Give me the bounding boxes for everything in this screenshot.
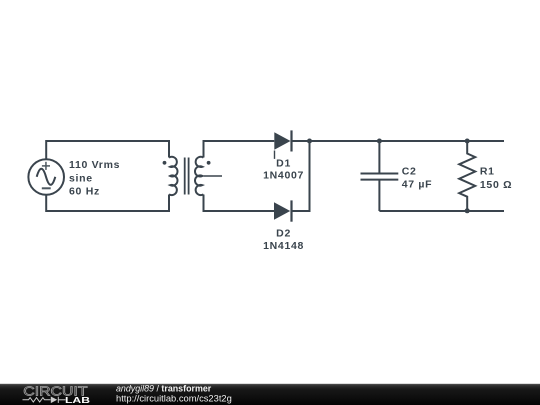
- svg-text:D1: D1: [276, 157, 291, 169]
- svg-text:andygil89 / transformer: andygil89 / transformer: [116, 384, 212, 394]
- svg-text:150 Ω: 150 Ω: [480, 179, 512, 191]
- wire: secondary top to D1: [204, 141, 275, 158]
- node at R1 top: [465, 139, 470, 144]
- diode D2: [274, 200, 292, 221]
- transformer center tap stub: [204, 175, 223, 177]
- D2 labels: [263, 227, 304, 251]
- wire: primary loop top: [46, 141, 169, 159]
- wire: primary loop bottom: [46, 195, 169, 212]
- voltage source plus sign: [42, 162, 50, 170]
- R1 labels: [480, 165, 512, 191]
- D1 labels: [263, 157, 304, 181]
- svg-text:1N4148: 1N4148: [263, 240, 304, 252]
- node at C2 top: [377, 139, 382, 144]
- resistor R1: [459, 141, 475, 211]
- node junction at D1/D2: [307, 139, 312, 144]
- transformer core: [185, 158, 189, 195]
- svg-text:http://circuitlab.com/cs23t2g: http://circuitlab.com/cs23t2g: [116, 393, 232, 403]
- voltage source V1 circle: [28, 159, 64, 195]
- capacitor C2: [361, 141, 399, 211]
- diode D1: [274, 130, 291, 151]
- svg-text:60 Hz: 60 Hz: [69, 185, 100, 197]
- transformer T1 secondary winding: [195, 157, 204, 195]
- transformer T1 primary winding: [169, 157, 178, 195]
- logo mini resistor: [23, 398, 51, 402]
- svg-text:D2: D2: [276, 227, 291, 239]
- wire: secondary bottom to D2: [204, 195, 275, 212]
- wire: top rail: [292, 140, 505, 142]
- svg-text:110 Vrms: 110 Vrms: [69, 159, 120, 171]
- svg-text:sine: sine: [69, 173, 93, 185]
- svg-text:C2: C2: [402, 165, 417, 177]
- transformer primary phase dot: [163, 161, 167, 165]
- voltage source minus sign: [42, 187, 51, 189]
- voltage source sine symbol: [37, 169, 56, 185]
- node at R1 bottom: [465, 208, 470, 213]
- wire: D2 cathode up to top rail: [292, 141, 310, 211]
- wire: bottom rail: [379, 210, 504, 212]
- transformer secondary phase dot: [207, 161, 211, 165]
- svg-text:LAB: LAB: [65, 396, 90, 405]
- V1 value labels: 110 Vrms / sine / 60 Hz: [69, 159, 120, 197]
- svg-text:47 µF: 47 µF: [402, 179, 433, 191]
- svg-text:R1: R1: [480, 165, 495, 177]
- footer bar: [0, 384, 540, 405]
- logo mini diode bar and wire: [58, 397, 65, 403]
- C2 labels: [402, 165, 433, 190]
- logo mini diode: [51, 397, 57, 404]
- svg-text:1N4007: 1N4007: [263, 170, 304, 182]
- D1 dangling stub: [274, 151, 276, 159]
